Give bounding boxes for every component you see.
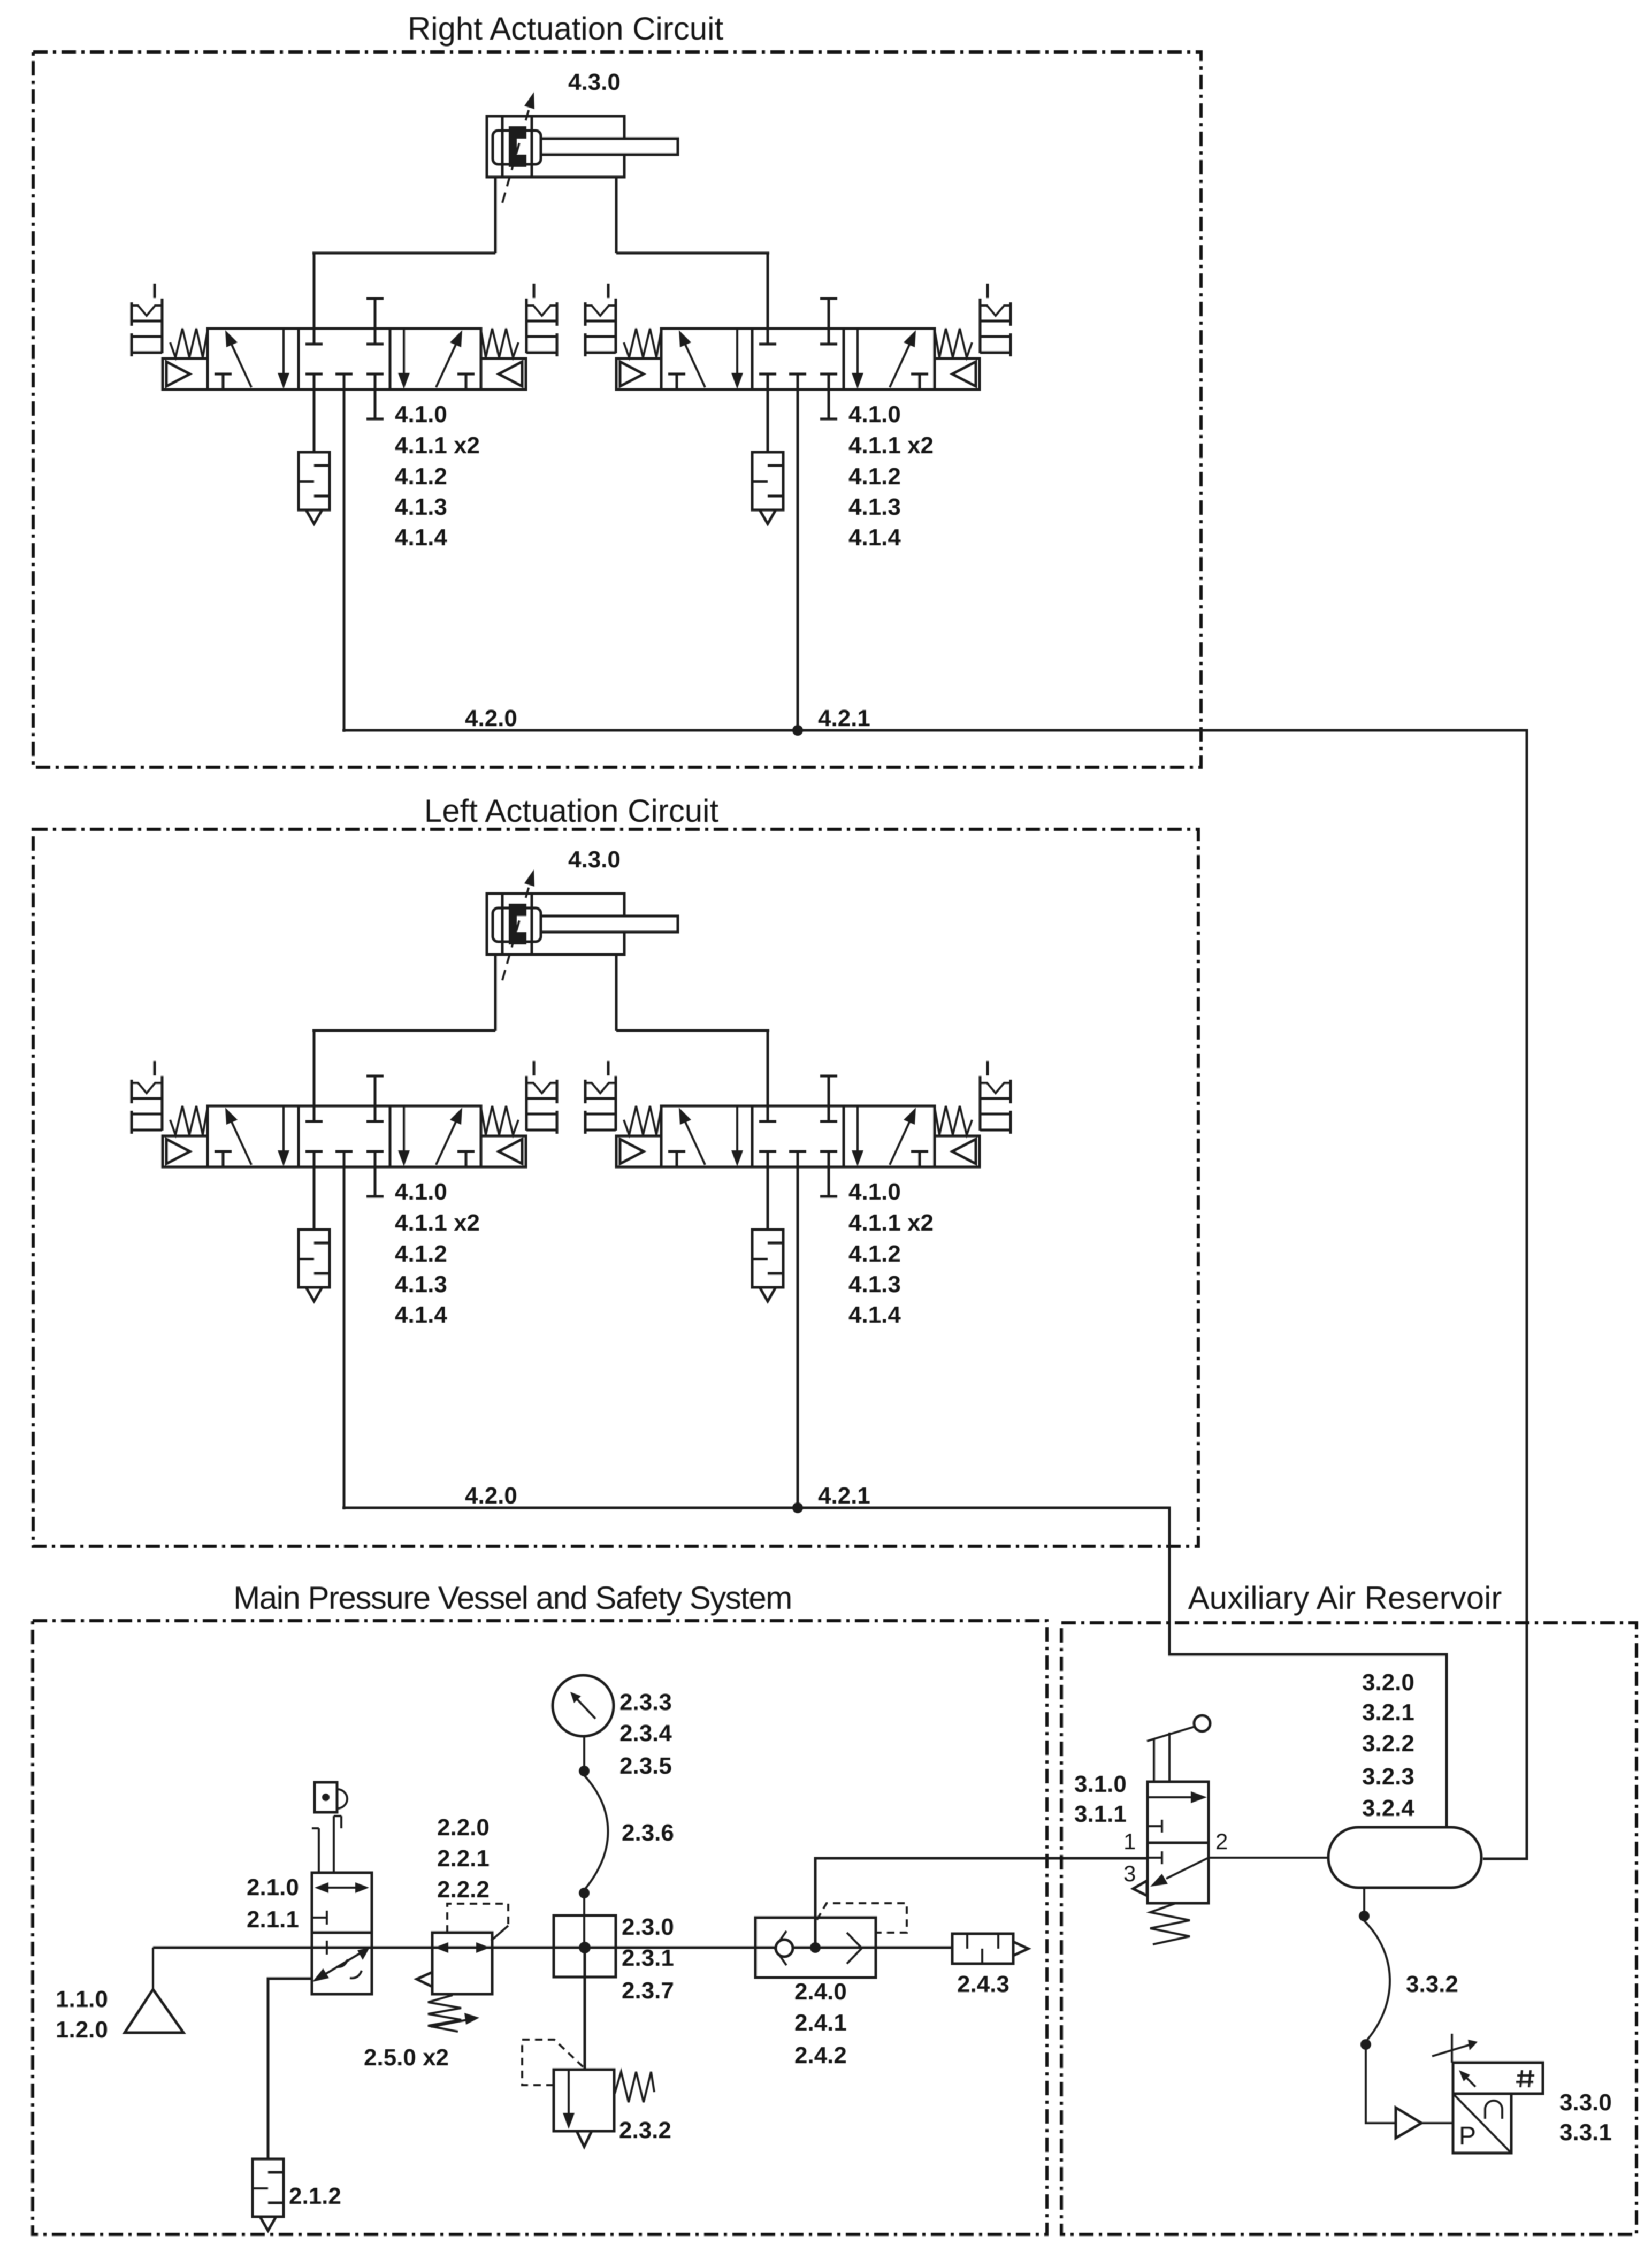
svg-text:1: 1: [1123, 1829, 1136, 1854]
muffler 2.1.2: [253, 2159, 284, 2231]
svg-text:2.4.2: 2.4.2: [794, 2042, 847, 2069]
pressure gauge 2.3.3: [553, 1675, 614, 1736]
wire 4.2.1 to auxiliary reservoir (left): [798, 1508, 1447, 1827]
left actuation circuit contents: [132, 846, 1011, 1513]
svg-text:2.4.0: 2.4.0: [794, 1979, 847, 2005]
box: auxiliary air reservoir: [1061, 1623, 1636, 2234]
bottom cell blocked port: [312, 1947, 327, 1949]
box: main pressure vessel and safety system: [33, 1621, 1047, 2234]
flexible hose 2.3.6: [584, 1775, 608, 1889]
wire port2 to reservoir: [1209, 1857, 1328, 1859]
svg-text:3.1.0: 3.1.0: [1074, 1771, 1127, 1797]
svg-text:2.3.3: 2.3.3: [619, 1689, 672, 1715]
svg-text:2.3.5: 2.3.5: [619, 1753, 672, 1779]
svg-text:3.3.1: 3.3.1: [1559, 2119, 1612, 2146]
check valve block 2.4.0: [755, 1918, 876, 1978]
svg-text:3.2.2: 3.2.2: [1362, 1730, 1414, 1757]
svg-text:2: 2: [1215, 1829, 1228, 1854]
bottom cell blocked port: [1148, 1857, 1162, 1859]
wire amplifier to switch: [1421, 2122, 1453, 2124]
gauge stem wire: [583, 1736, 585, 1767]
svg-text:P: P: [1459, 2122, 1476, 2150]
junction node: [1360, 2039, 1371, 2050]
pressure switch 3.3.0 lower box: [1453, 2094, 1511, 2153]
svg-text:Right Actuation Circuit: Right Actuation Circuit: [408, 11, 724, 47]
wire to tee block: [583, 1897, 585, 1950]
flow restriction curves: [336, 1959, 348, 1967]
svg-text:2.3.7: 2.3.7: [622, 1978, 674, 2004]
junction node: [579, 1888, 590, 1898]
svg-text:2.4.3: 2.4.3: [957, 1971, 1009, 1997]
bottom cell exhaust arrow: [1166, 1858, 1209, 1879]
safety valve 2.3.2 body: [554, 2070, 614, 2131]
svg-text:3.2.4: 3.2.4: [1362, 1795, 1414, 1821]
safety valve exhaust: [577, 2131, 592, 2147]
top cell blocked port: [312, 1917, 327, 1919]
svg-text:2.1.0: 2.1.0: [247, 1874, 299, 1901]
solenoid box 2.1.1: [315, 1782, 337, 1812]
box: left actuation circuit: [33, 829, 1198, 1546]
adjustment stem: [1451, 2034, 1453, 2063]
wire to amplifier: [1366, 2049, 1396, 2123]
regulator 2.2.0 body: [432, 1933, 492, 1994]
junction node: [579, 1766, 590, 1776]
air reservoir 3.2.0: [1328, 1827, 1481, 1888]
top cell blocked port: [1148, 1825, 1162, 1827]
box: right actuation circuit: [33, 52, 1201, 767]
svg-text:2.4.1: 2.4.1: [794, 2010, 847, 2036]
svg-text:2.2.1: 2.2.1: [437, 1845, 490, 1872]
safety valve spring: [615, 2072, 654, 2102]
main supply line: [153, 1947, 755, 1949]
wire 4.2.1 to auxiliary reservoir (right): [798, 730, 1527, 1859]
svg-text:3.3.0: 3.3.0: [1559, 2089, 1612, 2116]
valve spring below: [1150, 1903, 1190, 1944]
top cell double arrow: [319, 1887, 365, 1889]
svg-text:2.3.2: 2.3.2: [619, 2117, 671, 2143]
wire up from check valve to 3/2 valve: [815, 1858, 1148, 1948]
wire reservoir bottom: [1363, 1888, 1365, 1912]
svg-text:3.2.1: 3.2.1: [1362, 1699, 1414, 1726]
hand valve 3.1.0 body: [1148, 1782, 1209, 1903]
flexible hose 3.3.2: [1364, 1921, 1390, 2040]
intake filter 1.1.0: [152, 1948, 154, 1989]
svg-text:1.1.0: 1.1.0: [56, 1986, 108, 2012]
top cell flow arrow: [1148, 1796, 1194, 1798]
regulator pilot dashed box: [447, 1904, 508, 1933]
svg-text:Main Pressure Vessel and Safet: Main Pressure Vessel and Safety System: [233, 1580, 792, 1616]
svg-text:Left Actuation Circuit: Left Actuation Circuit: [424, 793, 719, 829]
svg-text:Auxiliary Air Reservoir: Auxiliary Air Reservoir: [1188, 1580, 1502, 1616]
bottom cell diagonal arrow: [323, 1953, 361, 1975]
svg-text:2.2.2: 2.2.2: [437, 1876, 490, 1903]
svg-text:2.1.2: 2.1.2: [289, 2183, 341, 2209]
junction node: [1359, 1911, 1370, 1921]
lever actuator: [1153, 1739, 1155, 1782]
coupling 2.4.3: [952, 1934, 1013, 1964]
svg-text:2.5.0 x2: 2.5.0 x2: [364, 2044, 449, 2071]
svg-text:2.3.0: 2.3.0: [622, 1914, 674, 1940]
wire to muffler 2.1.2: [268, 1979, 312, 2159]
wire down to safety valve: [584, 1948, 586, 2070]
shutoff valve 2.1.0 body: [312, 1873, 372, 1994]
safety valve pilot dashed: [522, 2040, 584, 2085]
svg-text:3.1.1: 3.1.1: [1074, 1801, 1127, 1827]
check valve pilot dashed: [817, 1903, 907, 1933]
hash symbol: [1520, 2070, 1522, 2087]
svg-text:3.3.2: 3.3.2: [1406, 1971, 1458, 1997]
svg-text:3: 3: [1123, 1861, 1136, 1886]
regulator relief triangle: [417, 1972, 432, 1987]
right actuation circuit contents: [132, 69, 1011, 736]
svg-text:2.3.6: 2.3.6: [622, 1820, 674, 1846]
regulator spring with arrow: [428, 1995, 461, 2032]
exhaust port 3 triangle: [1133, 1881, 1147, 1896]
svg-text:1.2.0: 1.2.0: [56, 2017, 108, 2043]
svg-text:2.2.0: 2.2.0: [437, 1814, 490, 1841]
amplifier triangle: [1396, 2108, 1421, 2138]
svg-text:3.2.0: 3.2.0: [1362, 1669, 1414, 1696]
svg-text:2.3.4: 2.3.4: [619, 1720, 672, 1746]
contact symbol: [1485, 2101, 1502, 2119]
svg-text:2.3.1: 2.3.1: [622, 1945, 674, 1971]
svg-text:3.2.3: 3.2.3: [1362, 1764, 1414, 1790]
solenoid actuator stem: [312, 1827, 319, 1829]
pressure switch upper box: [1453, 2063, 1543, 2094]
svg-text:2.1.1: 2.1.1: [247, 1906, 299, 1933]
tee block 2.3.0: [554, 1915, 616, 1977]
